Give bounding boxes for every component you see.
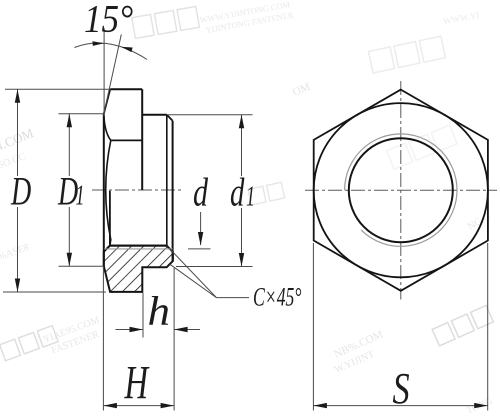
d1 arrow up xyxy=(239,115,244,129)
thread arc 3/4 xyxy=(345,134,457,246)
d extension line xyxy=(188,248,211,250)
hole circle xyxy=(349,138,453,242)
h dimension line left xyxy=(116,329,144,331)
chamfer circle xyxy=(314,103,488,277)
label Cx45 xyxy=(253,282,302,311)
D top extension line xyxy=(5,88,111,90)
S dimension line xyxy=(313,405,487,407)
boss right edge xyxy=(172,121,174,261)
svg-text:H: H xyxy=(124,355,150,409)
H arrow right xyxy=(161,403,175,408)
h extension line xyxy=(142,293,144,338)
watermark bottom-left blocks xyxy=(0,326,58,361)
d dimension xyxy=(200,212,202,245)
hex top edge xyxy=(110,88,142,90)
watermark center small xyxy=(248,182,285,205)
D1 arrow down xyxy=(67,253,72,266)
H arrow left xyxy=(103,403,117,408)
watermark top-right xyxy=(368,36,445,73)
boss chamfer edge line xyxy=(166,115,168,246)
svg-text:15°: 15° xyxy=(84,0,133,41)
H left extension line xyxy=(102,267,104,411)
svg-text:SO.CC: SO.CC xyxy=(0,151,27,171)
S arrow right xyxy=(474,403,488,408)
svg-text:%ASE8: %ASE8 xyxy=(0,242,30,263)
section outline xyxy=(104,246,173,292)
15 deg slant extension line xyxy=(104,35,122,114)
svg-text:S: S xyxy=(393,364,410,413)
label D xyxy=(10,170,31,214)
thread major thin line xyxy=(104,248,172,250)
svg-text:1: 1 xyxy=(76,180,85,211)
hexagon xyxy=(314,90,488,291)
label d1 xyxy=(230,170,245,215)
label D1 xyxy=(57,170,78,214)
watermark bottom-right text xyxy=(327,328,391,376)
C x 45 leader lines xyxy=(170,249,217,298)
svg-text:1: 1 xyxy=(246,181,255,212)
svg-text:h: h xyxy=(148,289,171,334)
hole wall line xyxy=(110,245,167,247)
d1 top extension line xyxy=(168,114,253,116)
h arrow right-pointing xyxy=(130,327,144,332)
svg-text:OM: OM xyxy=(291,81,312,99)
label 15deg xyxy=(84,0,133,41)
d1 bottom extension line xyxy=(176,266,253,268)
D dimension line xyxy=(17,89,19,176)
watermark top-center xyxy=(132,6,200,38)
S arrow left xyxy=(313,403,327,408)
boss top edge xyxy=(142,114,167,116)
D1 top extension line xyxy=(59,113,104,115)
hole left chamfer edge circle (section half) xyxy=(109,191,111,246)
svg-text:D: D xyxy=(10,170,31,214)
D1 dimension line xyxy=(68,114,70,176)
boss top chamfer xyxy=(167,115,173,121)
D1 bottom extension line xyxy=(59,265,104,267)
watermark hexagon interior xyxy=(387,125,458,169)
face edge xyxy=(111,139,142,141)
D arrow up xyxy=(15,89,20,103)
left face line xyxy=(103,114,105,266)
d1 dimension line xyxy=(241,115,243,176)
centerline xyxy=(92,189,182,191)
upper face chamfer arc xyxy=(104,116,111,141)
centerline vertical xyxy=(400,81,402,300)
d1 arrow down xyxy=(239,253,244,267)
D bottom extension line xyxy=(3,291,106,293)
centerline horizontal xyxy=(305,189,497,191)
svg-text:d: d xyxy=(193,169,208,214)
S right extension line xyxy=(487,243,489,411)
chamfer cone silhouette xyxy=(104,89,110,114)
h arrow left-pointing xyxy=(174,327,188,332)
label d xyxy=(193,169,208,214)
15 deg arc arrow right xyxy=(121,47,132,52)
label h xyxy=(148,289,171,334)
H right extension line xyxy=(173,268,175,411)
15 deg dimension arc xyxy=(75,43,148,59)
h dimension line right xyxy=(174,329,200,331)
watermark bottom-left text xyxy=(42,315,106,358)
watermark bottom-right blocks xyxy=(432,305,493,345)
15 deg arc arrow left xyxy=(92,41,104,46)
label S xyxy=(393,364,410,413)
middle face chamfer arc xyxy=(106,140,111,245)
svg-text:C×45°: C×45° xyxy=(253,282,302,311)
D arrow down xyxy=(15,279,20,293)
S left extension line xyxy=(312,243,314,411)
label H xyxy=(124,355,150,409)
H dimension line xyxy=(103,405,174,407)
svg-text:WWW.YI: WWW.YI xyxy=(442,10,480,26)
15 deg vertical extension line xyxy=(103,28,105,116)
svg-text:d: d xyxy=(230,170,245,215)
hex right edge xyxy=(141,89,143,190)
D1 arrow up xyxy=(67,114,72,128)
d arrow down xyxy=(198,232,203,246)
section hatch fill xyxy=(104,246,173,292)
